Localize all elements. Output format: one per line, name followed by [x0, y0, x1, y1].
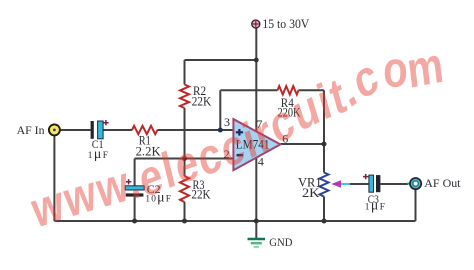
resistor R3 — [180, 176, 189, 202]
node pin2 junction — [182, 156, 187, 161]
wire output vertical upper — [323, 90, 325, 172]
wire C3 to AF Out — [380, 183, 408, 185]
capacitor C3 — [363, 174, 380, 192]
ground — [248, 239, 266, 247]
node bottom C2 — [132, 219, 137, 224]
node bottom R3 — [182, 219, 187, 224]
wire R1 to pin3 — [157, 129, 233, 131]
wire C2 top lead — [134, 159, 136, 187]
node bottom VR1 — [322, 219, 327, 224]
resistor R4 — [278, 86, 299, 94]
svg-text:15 to 30V: 15 to 30V — [262, 17, 309, 31]
wire left branch — [53, 135, 55, 221]
wire VR1 bottom lead — [323, 197, 325, 222]
wire supply vertical — [255, 28, 257, 132]
svg-text:2K: 2K — [302, 186, 320, 200]
wire output — [280, 143, 324, 145]
op-amp U1 LM741 — [233, 119, 280, 170]
VR1 wiper arrow — [331, 180, 350, 188]
node output junction — [322, 142, 327, 147]
wire pin4 — [255, 158, 257, 221]
capacitor C1 — [91, 120, 109, 139]
svg-text:AF Out: AF Out — [424, 178, 461, 190]
capacitor C2 — [125, 179, 144, 196]
wire feedback right — [299, 89, 325, 91]
wire C2 bottom lead — [134, 197, 136, 221]
svg-text:22K: 22K — [192, 95, 212, 109]
connector AF Out — [407, 178, 421, 189]
wire feedback left — [220, 89, 277, 91]
node bottom gnd — [254, 219, 259, 224]
svg-text:GND: GND — [269, 237, 292, 249]
wire bottom rail — [54, 220, 415, 222]
wire R3 bottom lead — [184, 202, 186, 221]
wire C1-R1 — [103, 129, 132, 131]
connector AF In — [49, 124, 60, 135]
wire input row — [60, 129, 91, 131]
wire ground stub — [255, 221, 257, 238]
wire right riser — [415, 189, 417, 221]
wire pin2 row — [135, 158, 234, 160]
node pin3 junction — [218, 128, 223, 133]
potentiometer VR1 — [320, 173, 329, 197]
supply terminal +V — [252, 20, 260, 28]
resistor R2 — [180, 85, 189, 109]
svg-text:AF In: AF In — [17, 125, 45, 137]
wire R2-R3 middle — [184, 108, 186, 176]
wire wiper to C3 — [350, 183, 369, 185]
wire feedback vertical — [219, 90, 221, 130]
wire top rail — [185, 59, 257, 61]
node top rail junction — [254, 58, 259, 63]
watermark www.eleccircuit.com — [26, 36, 448, 239]
wire R2 top lead — [184, 60, 186, 85]
resistor R1 — [132, 126, 157, 134]
